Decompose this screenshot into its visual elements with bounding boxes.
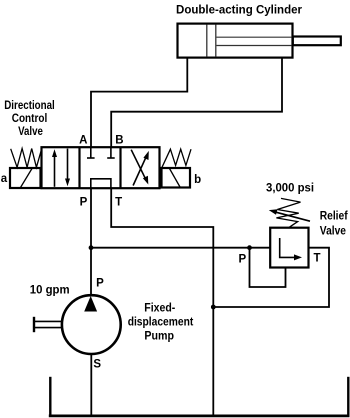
relief valve internal flow arrow [280,238,302,260]
cylinder piston [207,25,216,57]
svg-text:P: P [80,197,88,209]
relief valve body [270,228,308,268]
svg-text:a: a [1,173,8,185]
svg-text:T: T [313,253,320,265]
pump drive shaft [34,317,63,332]
label: relief valve port P [238,253,246,265]
svg-text:Control: Control [12,113,48,125]
valve left envelope up-arrow [52,149,57,187]
junction: relief pilot branch [247,245,252,250]
relief valve spring [276,198,300,227]
fixed-displacement pump [62,295,121,354]
valve right envelope crossed arrow 1 [131,150,148,185]
valve center envelope port A blocked [87,148,95,159]
svg-text:Directional: Directional [4,100,55,112]
label: pump port S [93,359,101,371]
reservoir tank [49,377,350,416]
svg-text:10 gpm: 10 gpm [30,284,70,296]
relief valve adjustment arrow [269,209,310,221]
valve right spring [162,149,191,167]
svg-text:displacement: displacement [128,316,194,328]
svg-text:A: A [79,134,87,146]
label: valve port B [115,134,123,146]
junction: return line [211,305,216,310]
valve center envelope port B blocked [107,148,115,159]
svg-text:Relief: Relief [320,210,348,222]
svg-text:Valve: Valve [18,126,43,138]
valve center envelope P-T bypass [91,179,111,188]
label: solenoid a [1,173,8,185]
label: Double-acting Cylinder [176,4,303,16]
valve left envelope down-arrow [65,149,70,187]
directional control valve body U1 [42,147,160,188]
svg-text:Valve: Valve [320,225,346,237]
pump flow triangle [84,296,97,312]
label: pump port P [96,278,104,290]
svg-text:S: S [93,359,101,371]
solenoid a box [10,168,41,188]
valve right envelope crossed arrow 2 [133,151,149,186]
relief valve pilot line [250,248,286,287]
wire: pump suction to tank [90,354,92,415]
svg-text:P: P [238,253,246,265]
wire: valve port T to tank [111,188,213,415]
svg-text:Fixed-: Fixed- [144,302,175,314]
label: Directional Control Valve [4,100,55,138]
solenoid b box [162,168,191,188]
label: Relief Valve [320,210,348,237]
label: Fixed-displacement Pump [128,302,194,342]
label: valve port P [80,197,88,209]
svg-text:Pump: Pump [144,330,174,342]
label: 3,000 psi [266,183,314,195]
svg-text:T: T [115,196,122,208]
svg-text:B: B [115,134,123,146]
double-acting cylinder body [178,24,293,58]
wire: relief valve T to return line [213,248,329,307]
valve left spring [11,149,42,168]
svg-text:P: P [96,278,104,290]
wire: cylinder rod end to valve port B [111,58,282,148]
cylinder rod (outside barrel) [293,37,341,46]
wire: P branch to relief valve [91,247,270,249]
valve envelope divider left [78,148,80,189]
wire: cylinder cap end to valve port A [91,58,187,148]
label: valve port T [115,196,122,208]
label: relief valve port T [313,253,320,265]
label: valve port A [79,134,87,146]
svg-text:Double-acting Cylinder: Double-acting Cylinder [176,4,303,16]
cylinder rod (inside barrel) [217,37,293,45]
junction: pump P branch [89,245,94,250]
svg-text:3,000 psi: 3,000 psi [266,183,314,195]
svg-text:b: b [194,174,201,186]
label: 10 gpm [30,284,70,296]
valve envelope divider right [119,148,121,189]
label: solenoid b [194,174,201,186]
wire: valve port P down to pump [90,188,92,295]
